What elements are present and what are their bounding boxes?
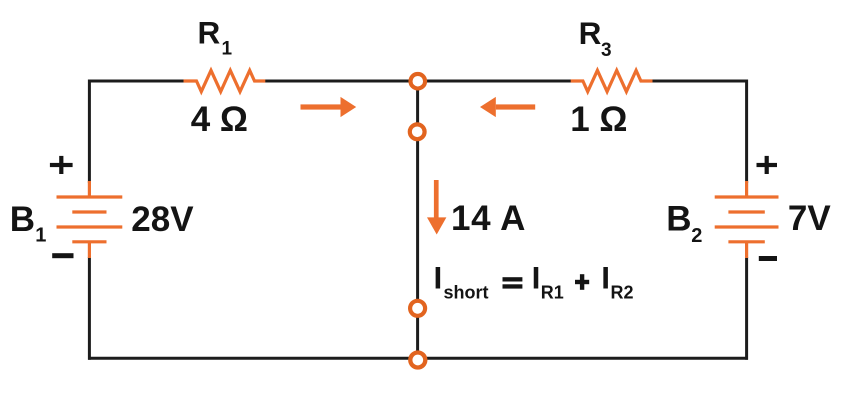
svg-text:I: I — [601, 260, 610, 296]
wire right vertical upper — [745, 80, 748, 184]
wire right vertical lower — [745, 257, 748, 360]
svg-text:4 Ω: 4 Ω — [191, 100, 248, 139]
resistor R3 — [571, 70, 653, 91]
svg-text:B: B — [10, 200, 35, 239]
equals sign — [503, 277, 523, 288]
svg-text:short: short — [444, 283, 489, 303]
wire middle vertical (short branch) — [416, 81, 419, 358]
wire top-middle segment — [265, 80, 571, 83]
svg-text:1: 1 — [222, 39, 233, 60]
plus sign formula — [575, 274, 589, 290]
wire top-left segment — [88, 80, 184, 83]
plus sign B2 — [757, 156, 778, 174]
minus sign B2 — [759, 256, 777, 261]
svg-text:7V: 7V — [788, 199, 831, 238]
resistor R1 — [184, 70, 266, 91]
plus sign B1 — [50, 156, 73, 174]
svg-text:B: B — [666, 200, 691, 239]
svg-text:R2: R2 — [611, 283, 634, 303]
node N1 (top junction) — [411, 74, 426, 89]
arrow right (current from R1) — [301, 97, 357, 117]
wire left vertical upper — [88, 80, 91, 184]
svg-text:28V: 28V — [131, 200, 194, 239]
wire top-right segment — [653, 80, 749, 83]
wire left vertical lower — [88, 257, 91, 360]
battery B2 — [715, 181, 779, 258]
svg-text:14 A: 14 A — [451, 199, 526, 238]
svg-text:R: R — [198, 15, 221, 51]
svg-text:I: I — [532, 260, 541, 296]
svg-text:3: 3 — [601, 40, 612, 61]
node N4 (bottom junction) — [410, 353, 425, 368]
arrow down (short current) — [427, 180, 446, 235]
svg-text:1 Ω: 1 Ω — [570, 100, 627, 139]
arrow left (current from R3) — [480, 97, 535, 117]
battery B1 — [57, 181, 123, 258]
wire bottom — [88, 357, 748, 360]
svg-text:R: R — [579, 15, 602, 51]
svg-text:1: 1 — [35, 224, 46, 246]
node N3 (lower short terminal) — [410, 301, 425, 316]
svg-text:I: I — [434, 260, 443, 296]
svg-text:R1: R1 — [541, 283, 564, 303]
minus sign B1 — [52, 253, 73, 258]
svg-text:2: 2 — [691, 225, 702, 247]
node N2 (upper short terminal) — [410, 124, 425, 139]
